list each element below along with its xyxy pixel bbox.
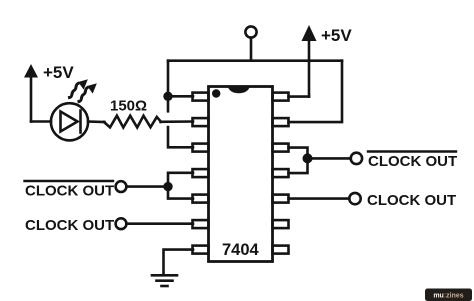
terminal circle (clock out right) (349, 193, 360, 204)
pin 12 (273, 144, 289, 152)
ground (152, 275, 177, 286)
terminal circle (clock-out-bar left) (116, 181, 127, 192)
wire resistor to IC pin 2 (crosses vertical net without joining) (161, 120, 194, 123)
pin 2 (193, 118, 209, 126)
svg-text:CLOCK OUT: CLOCK OUT (25, 217, 114, 234)
svg-text:CLOCK OUT: CLOCK OUT (25, 182, 114, 199)
wire IC pins 4 and 5 to node B (168, 173, 193, 199)
IC U1 7404 body (209, 87, 273, 262)
node C (inverted clock out net, right) (303, 153, 313, 163)
svg-text:+5V: +5V (321, 26, 352, 45)
terminal circle (clock-out-bar right) (351, 153, 362, 164)
svg-text:7404: 7404 (222, 241, 260, 259)
overline (right label) (368, 150, 456, 152)
pin 13 (273, 118, 289, 126)
wire vertical below crossover to IC pin 3 (168, 127, 193, 147)
wire terminal to top rail (250, 38, 253, 61)
pin 3 (193, 144, 209, 152)
wire IC pins 12 and 11 to node C (289, 148, 308, 174)
pin 1 (193, 93, 209, 101)
overline (left label) (25, 180, 114, 182)
svg-text:mu:zines: mu:zines (433, 293, 463, 300)
wire node C to terminal (308, 157, 351, 160)
node A (junction on pin 1 net) (163, 92, 172, 101)
pin 8 (273, 246, 289, 254)
LED light arrows (70, 81, 96, 102)
IC pin 1 dot (212, 89, 220, 97)
pin 9 (273, 220, 289, 228)
wire top rail (168, 59, 342, 62)
wire node A to IC pin 1 (168, 95, 193, 98)
terminal circle (top, clock input) (245, 26, 256, 37)
wire IC pin 10 to terminal (289, 197, 350, 200)
pin 11 (273, 169, 289, 177)
wire right rail drop to IC pin 12 (289, 61, 343, 122)
pin 7 (193, 246, 209, 254)
power +5V arrow (LED anode supply) (24, 64, 38, 122)
terminal circle (clock out left) (116, 218, 127, 229)
wire from +5V to LED anode (31, 120, 51, 123)
wire left rail drop to node A (167, 61, 170, 112)
wire IC pin 7 to ground (164, 250, 194, 275)
resistor R1 150 ohm (104, 116, 161, 128)
pin 6 (193, 220, 209, 228)
wire IC pin 6 to terminal (126, 222, 193, 225)
pin 10 (273, 195, 289, 203)
node B (inverted clock out net, left) (163, 182, 172, 191)
pin 5 (193, 195, 209, 203)
pin 14 (273, 93, 289, 101)
muzines logo (425, 289, 472, 301)
IC notch (228, 86, 250, 93)
svg-text:150Ω: 150Ω (110, 98, 147, 115)
power +5V arrow (IC supply) (302, 25, 317, 97)
pin 4 (193, 169, 209, 177)
LED D1 (photo-diode symbol in circle) (51, 103, 88, 140)
svg-text:+5V: +5V (43, 63, 74, 82)
wire node B to terminal (126, 185, 168, 188)
svg-text:CLOCK OUT: CLOCK OUT (368, 153, 457, 170)
svg-text:CLOCK OUT: CLOCK OUT (367, 192, 456, 209)
wire LED cathode to resistor (88, 120, 105, 123)
wire +5V to IC pin 14 (289, 95, 310, 98)
